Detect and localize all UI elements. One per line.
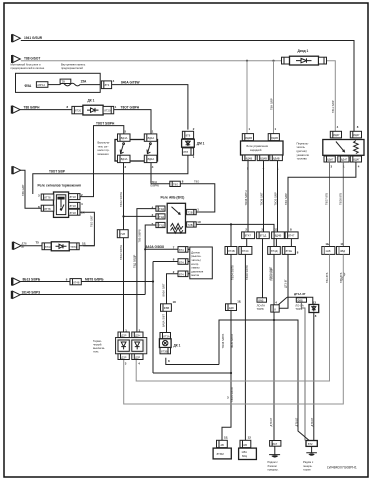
svg-text:8Б13 S/8РБ: 8Б13 S/8РБ	[23, 277, 41, 281]
svg-text:Т8О3 S/8Р: Т8О3 S/8Р	[269, 267, 273, 281]
svg-text:Т8О4 S/8Т8: Т8О4 S/8Т8	[230, 334, 234, 349]
svg-text:Ф5А: Ф5А	[25, 84, 32, 88]
svg-text:Диод 1: Диод 1	[298, 49, 309, 53]
svg-text:8Т4: 8Т4	[179, 260, 184, 264]
svg-text:8Д4Г: 8Д4Г	[327, 158, 334, 162]
svg-text:8Т3: 8Т3	[105, 83, 110, 87]
svg-text:1Н8: 1Н8	[325, 249, 330, 253]
svg-text:8Т4Д: 8Т4Д	[271, 249, 278, 253]
wire stop switch right-bottom down then right to relay K2	[151, 163, 170, 184]
svg-text:давления: давления	[191, 270, 203, 273]
wire fuel sender pin4 jog left and down to row1-B4	[288, 162, 356, 232]
svg-text:Т2В: Т2В	[188, 223, 193, 227]
svg-text:можения: можения	[98, 153, 110, 156]
svg-text:8ТЗМ: 8ТЗМ	[217, 452, 225, 456]
svg-text:Т8О2 S/8ТН: Т8О2 S/8ТН	[119, 192, 123, 207]
row2 connector B2	[239, 247, 252, 255]
row2 connector B1	[225, 247, 237, 255]
svg-text:8АТ: 8АТ	[272, 442, 277, 446]
oil pressure switch box	[190, 247, 213, 279]
STC element left	[118, 340, 129, 351]
row1-row2 stubs	[247, 239, 292, 298]
svg-text:1Б: 1Б	[325, 242, 329, 246]
svg-text:8Т4: 8Т4	[179, 273, 184, 277]
wire inside fuse block	[48, 84, 60, 86]
svg-text:Блок управления: Блок управления	[247, 144, 269, 148]
connector -H8 (gray chain)	[322, 247, 335, 255]
bottom connector .4B	[217, 440, 228, 447]
svg-text:12: 12	[248, 436, 252, 440]
svg-text:Т8О8 S/8ГБ: Т8О8 S/8ГБ	[221, 334, 225, 349]
svg-text:8Т8: 8Т8	[183, 150, 188, 154]
svg-text:8Т4: 8Т4	[179, 248, 184, 252]
svg-text:ДК 1: ДК 1	[174, 343, 181, 347]
fuel sender bottom connector 1	[324, 156, 335, 162]
stop switch bottom connector left 8D4A	[118, 155, 131, 162]
wire relay K1 row1 up-over to stop switch	[80, 126, 124, 197]
svg-text:Датчик: Датчик	[191, 250, 200, 254]
switch symbol right	[150, 143, 152, 145]
svg-text:Т8Б G/8Т: Т8Б G/8Т	[21, 184, 25, 196]
svg-text:Т2Д: Т2Д	[159, 207, 164, 211]
svg-text:лампы: лампы	[191, 267, 199, 270]
fuel sender top connector left	[330, 131, 341, 138]
relay K1 right connector row2	[69, 202, 80, 208]
fuse block box	[16, 73, 101, 92]
wire diode down to T82 ground box	[313, 313, 315, 441]
connector T8O on that wire	[170, 181, 181, 186]
svg-text:18140 S/8РЗ: 18140 S/8РЗ	[22, 290, 41, 294]
svg-text:18: 18	[173, 300, 177, 304]
wire T8OT G/8RN to stop switch	[114, 110, 151, 134]
svg-text:Терми-: Терми-	[93, 339, 102, 343]
fuel sender bottom connector 3	[350, 156, 361, 162]
gray wire W3: +8D down, left to STC left leg	[124, 254, 344, 404]
svg-text:Переклю-: Переклю-	[297, 141, 309, 145]
fuel sender body	[323, 140, 364, 156]
optional stub text (without A/C)	[257, 298, 267, 302]
control unit wire 2 down	[263, 161, 265, 232]
svg-text:.4В: .4В	[220, 443, 224, 447]
connector arrow IN7	[13, 242, 21, 250]
svg-text:Т88 G/8РН: Т88 G/8РН	[24, 105, 41, 109]
svg-text:1Д8: 1Д8	[229, 306, 234, 310]
svg-text:Т8О S/8Р: Т8О S/8Р	[284, 193, 288, 205]
svg-text:8Т47: 8Т47	[288, 234, 295, 238]
svg-text:Т8ОТ S/8РН: Т8ОТ S/8РН	[96, 121, 115, 125]
svg-text:А8Г12: А8Г12	[37, 83, 45, 87]
connector arrow IN4	[12, 166, 20, 174]
svg-text:М8Т8 G/8РБ: М8Т8 G/8РБ	[85, 277, 104, 281]
switch symbol left	[123, 143, 125, 145]
diode 1: body	[290, 56, 319, 65]
svg-text:Монтажный блок реле и: Монтажный блок реле и	[11, 63, 42, 67]
svg-text:контр.: контр.	[191, 263, 199, 266]
diode box on x=313	[309, 305, 319, 313]
svg-text:8А0А S/8Т: 8А0А S/8Т	[162, 283, 166, 296]
svg-text:8Т4В: 8Т4В	[228, 249, 235, 253]
fuel sender top connector right	[350, 131, 361, 138]
svg-text:Д2Н: Д2Н	[135, 333, 140, 337]
svg-text:указателя: указателя	[297, 154, 310, 157]
svg-text:Т8О2 S/8ТН: Т8О2 S/8ТН	[119, 245, 123, 260]
svg-text:8Т20: 8Т20	[104, 108, 111, 112]
relay K2 left connector row3	[156, 222, 165, 227]
svg-text:8Д4В: 8Д4В	[246, 156, 253, 160]
svg-text:Т2В: Т2В	[188, 210, 193, 214]
STC top connector right	[132, 332, 143, 338]
svg-text:8Т3В: 8Т3В	[161, 349, 168, 353]
svg-text:тель сиг-: тель сиг-	[98, 145, 109, 148]
connector F28 on the wire	[117, 230, 128, 238]
svg-text:82Ц: 82Ц	[242, 454, 247, 458]
svg-text:8Т4С: 8Т4С	[242, 249, 249, 253]
svg-text:нала тор-: нала тор-	[98, 149, 110, 152]
svg-text:8Д4А: 8Д4А	[148, 136, 155, 140]
fuse box F8B near diode	[296, 298, 306, 302]
svg-text:8Т4Е: 8Т4Е	[286, 249, 293, 253]
wire from IN4 down to relay K1 coil	[20, 170, 41, 208]
svg-text:генера-: генера-	[303, 465, 312, 468]
svg-text:Т8О8 8ГБ: Т8О8 8ГБ	[339, 193, 343, 205]
row1 connector B1	[242, 232, 255, 239]
svg-text:8Т20: 8Т20	[75, 108, 82, 112]
relay K1 left connector row2	[41, 205, 54, 211]
wire 840A G/L8W from fuse to diode chain	[112, 85, 188, 130]
svg-text:8А0А S/8Т: 8А0А S/8Т	[162, 314, 166, 327]
svg-text:8Т1Д: 8Т1Д	[260, 234, 267, 238]
svg-text:8Т18: 8Т18	[70, 195, 77, 199]
relay K2 switch symbol	[172, 207, 181, 215]
svg-text:Т8О4 S/8Т8: Т8О4 S/8Т8	[230, 387, 234, 402]
wire to DT8 component	[20, 245, 42, 247]
svg-text:ДТ8 8Г: ДТ8 8Г	[310, 417, 314, 426]
svg-text:1941 G/SUR: 1941 G/SUR	[24, 36, 43, 40]
wire 18140 S/8R3	[20, 294, 145, 296]
row1 connector B3	[272, 232, 285, 239]
fuel sender resistor zigzag	[354, 141, 359, 154]
svg-text:Т8О3 S/8Р: Т8О3 S/8Р	[274, 192, 278, 206]
svg-text:Т8О: Т8О	[194, 179, 199, 183]
svg-text:Ф8В: Ф8В	[164, 306, 170, 310]
relay K2 body	[167, 203, 185, 233]
dark bus y=321.5 from riser x=219 to drop x=298	[219, 320, 310, 441]
svg-text:LW484D07G08РН1: LW484D07G08РН1	[327, 466, 357, 470]
dark link B from x=153 bus	[153, 372, 231, 374]
wire relay K2 pin4 left-down to oil sensor connector row A	[137, 209, 156, 333]
connector arrow IN1	[12, 34, 20, 42]
junction on K2 bus at x=231	[230, 223, 232, 225]
svg-text:Т8Н S/8Р: Т8Н S/8Р	[270, 98, 274, 110]
svg-text:ДТ1А 8Г: ДТ1А 8Г	[294, 292, 306, 296]
svg-text:Г2Д: Г2Д	[159, 223, 164, 227]
connector J4-A	[178, 247, 188, 253]
svg-text:Т811 S/8Р: Т811 S/8Р	[331, 100, 335, 113]
svg-text:8Т18: 8Т18	[70, 204, 77, 208]
wire relay K2 right row2 to long ground drop	[196, 224, 274, 440]
svg-text:13: 13	[313, 300, 317, 304]
svg-text:G/8РW: G/8РW	[150, 183, 159, 187]
svg-text:8Д4В: 8Д4В	[273, 156, 280, 160]
svg-text:8АБ: 8АБ	[258, 298, 263, 302]
STC bottom connector right	[132, 354, 143, 360]
svg-text:ТОР8: ТОР8	[257, 307, 264, 311]
svg-text:Т8А 8ГБ: Т8А 8ГБ	[325, 272, 329, 283]
wire fuel sender pin1 down to +8D	[342, 162, 344, 247]
svg-text:Ф8Б: Ф8Б	[298, 298, 304, 302]
svg-text:8Т78: 8Т78	[44, 207, 51, 211]
stop lamp switch body	[115, 140, 158, 162]
svg-text:Г28: Г28	[121, 232, 126, 236]
relay K1 contact	[61, 200, 64, 211]
stop switch bottom connector right 8D4A	[144, 155, 157, 162]
control unit top connector left 8D4A	[242, 134, 253, 141]
svg-text:8Д4В: 8Д4В	[271, 136, 278, 140]
svg-text:ДТ3 8Г: ДТ3 8Г	[284, 279, 288, 288]
diode assembly D1: bottom connector	[182, 148, 193, 155]
stop switch top connector left 8D4A	[118, 134, 131, 141]
svg-text:Д2Р: Д2Р	[121, 355, 126, 359]
STC element right	[132, 340, 143, 351]
svg-text:8Д4А: 8Д4А	[121, 157, 128, 161]
svg-text:Выключа-: Выключа-	[98, 141, 110, 145]
fusible link DK1: body	[83, 105, 103, 115]
svg-text:1Х: 1Х	[197, 220, 201, 224]
wire row2-B1 down	[230, 254, 232, 303]
svg-text:8Д4Г: 8Д4Г	[333, 133, 340, 137]
relay K1 left connector row1	[41, 194, 54, 200]
DK lamp: top connector	[160, 333, 171, 339]
svg-text:8Т18: 8Т18	[70, 211, 77, 215]
wire relay K2 pin2 to stop-switch wire junction	[124, 215, 156, 217]
svg-text:Т8О7 8ГБ: Т8О7 8ГБ	[325, 193, 329, 205]
svg-text:1Б: 1Б	[82, 241, 86, 245]
svg-text:Т8О2: Т8О2	[150, 180, 157, 184]
row1 connector B2	[257, 232, 270, 239]
svg-text:выключа-: выключа-	[93, 347, 105, 350]
svg-text:8Т34: 8Т34	[45, 245, 52, 249]
control unit body	[241, 141, 284, 155]
connector J4-B	[178, 259, 188, 265]
svg-text:ЛО-ЛА: ЛО-ЛА	[257, 303, 266, 307]
connector 8T4 on 8B13 wire	[70, 279, 81, 285]
wire DT1A 8G to diode box	[287, 297, 313, 304]
svg-text:предохранителей в салоне: предохранителей в салоне	[11, 66, 45, 70]
wire T88 G/SOT (gray feed wire through diode 1)	[21, 60, 336, 134]
wire F8B down to T82 ground (diagonal at bottom)	[301, 302, 305, 440]
svg-text:масла: масла	[191, 274, 199, 277]
control unit top connector right 8D4A	[268, 134, 279, 141]
svg-text:топлива: топлива	[297, 158, 308, 161]
bottom connector 8A	[270, 441, 281, 447]
svg-text:Т8О8 S/8Т: Т8О8 S/8Т	[260, 192, 264, 206]
svg-text:Д2Р: Д2Р	[121, 333, 126, 337]
connector +8B on x=166	[161, 304, 172, 312]
relay K1 inner body	[56, 195, 65, 215]
STC body	[116, 338, 147, 354]
ground symbol G2 (chassis)	[306, 446, 317, 452]
connector arrow IN6	[12, 291, 20, 299]
svg-text:Рядом с: Рядом с	[268, 460, 279, 464]
wire relay K1 row3 down to DT8 component	[80, 212, 94, 246]
svg-text:В1В: В1В	[242, 443, 247, 447]
svg-text:ДК 1: ДК 1	[88, 99, 95, 103]
wire 8B13 S/8RB	[20, 281, 153, 283]
svg-text:Т8ОТ G/8РН: Т8ОТ G/8РН	[121, 105, 140, 109]
svg-text:Рядом с: Рядом с	[303, 460, 314, 464]
relay K2 right connector row1	[187, 209, 197, 214]
DT8 component: right connector	[69, 243, 79, 250]
connector -D8 on x=231	[226, 304, 237, 311]
row2 connector B4	[282, 247, 295, 255]
connector arrow IN5	[12, 278, 20, 286]
svg-text:8Т47: 8Т47	[245, 234, 252, 238]
svg-text:предохр.: предохр.	[268, 468, 279, 471]
svg-text:Т8Б S/8Р8: Т8Б S/8Р8	[138, 229, 142, 242]
connector A8F12 inside fuse block	[36, 82, 48, 88]
connector +8D (gray chain)	[337, 247, 350, 255]
svg-text:8Т78: 8Т78	[44, 196, 51, 200]
DT8 component: left connector	[42, 243, 51, 250]
STC bottom connector left	[118, 354, 129, 360]
connector on x=274 wire	[271, 305, 279, 312]
stop switch top connector right 8D4A	[144, 134, 157, 141]
wire row2-B4 down to oil temp switch symbol	[279, 254, 288, 308]
relay K2 resistor zigzag	[171, 224, 183, 234]
svg-text:Т8О8 S/8ТН: Т8О8 S/8ТН	[244, 190, 248, 205]
ground symbol G1	[269, 446, 280, 454]
svg-text:Реле АКБ (8И1): Реле АКБ (8И1)	[161, 196, 185, 200]
svg-text:Т8Д S/8ДР: Т8Д S/8ДР	[133, 254, 137, 268]
svg-text:Внутренняя панель: Внутренняя панель	[61, 63, 86, 67]
control unit wire 3 down	[277, 161, 279, 232]
dark link A from DK lamp bottom	[166, 358, 219, 365]
fuel sender bottom connector 2	[338, 156, 349, 162]
relay K1 outer body	[54, 192, 69, 217]
svg-text:840А G/Г8W: 840А G/Г8W	[121, 80, 139, 84]
control unit bottom connector 3	[270, 155, 283, 161]
wire K2 row2 bus into row2-B1	[230, 224, 232, 246]
fuse F5 15A symbol	[60, 79, 71, 83]
wire stop switch left-bottom down through F28 to STC block	[123, 163, 125, 333]
relay K2 left connector row1	[156, 206, 165, 211]
diode assembly D1 on feed wire: top connector	[182, 131, 193, 138]
wire fuel sender pin3 down to -H8	[329, 162, 331, 247]
connector J4-C	[178, 271, 188, 277]
svg-text:ЛО-ЛА: ЛО-ЛА	[295, 303, 304, 307]
wire row2-B2 down	[244, 254, 246, 440]
svg-text:T88 G/SOT: T88 G/SOT	[24, 57, 40, 61]
svg-text:Т5: Т5	[36, 241, 40, 245]
svg-text:8Т3А: 8Т3А	[163, 334, 170, 338]
connector arrow IN2	[12, 55, 20, 63]
relay K1 coil bar	[57, 197, 64, 200]
diode 1: left connector	[282, 57, 290, 64]
bottom connector T82	[306, 441, 317, 447]
svg-text:блоком: блоком	[268, 464, 277, 468]
connector arrow IN3	[12, 106, 20, 114]
stub links J4 to box	[188, 249, 190, 273]
svg-text:8Т8: 8Т8	[186, 133, 191, 137]
svg-text:11: 11	[340, 242, 343, 246]
svg-text:8Д4В: 8Д4В	[260, 156, 267, 160]
svg-text:Т8О S/8Т: Т8О S/8Т	[90, 215, 94, 227]
svg-text:предохранителей: предохранителей	[61, 66, 83, 70]
svg-text:8Д4В: 8Д4В	[245, 136, 252, 140]
DT8 component: body with diode	[51, 242, 69, 251]
bottom connector D1B	[240, 440, 251, 447]
DK lamp: bottom connector	[160, 348, 171, 354]
svg-text:15А: 15А	[81, 80, 88, 84]
fusible link DK1: left connector	[72, 106, 83, 113]
diode assembly D1: body with diode	[182, 139, 195, 147]
svg-text:8Д4Г: 8Д4Г	[353, 133, 360, 137]
wire -D8 down, jog left, to connector .4B	[222, 311, 231, 441]
svg-text:8Д4А: 8Д4А	[148, 157, 155, 161]
ground block 8T3M	[213, 448, 231, 459]
svg-text:ДМ 1: ДМ 1	[197, 141, 205, 145]
relay K1 right connector row3	[69, 209, 80, 215]
loop symbol on +8D wire	[342, 273, 345, 281]
wire from diode D1 down then left: long feed wire y=174	[33, 155, 188, 194]
relay K1 right connector row1	[69, 194, 80, 200]
svg-text:1Б: 1Б	[237, 300, 241, 304]
svg-text:чатель: чатель	[297, 146, 306, 149]
svg-text:Т8Т3: Т8Т3	[70, 245, 77, 249]
svg-text:тель: тель	[93, 351, 99, 354]
DK lamp: body	[159, 339, 171, 348]
fusible link DK1: right connector	[103, 106, 114, 113]
svg-text:8А0А G/8О8: 8А0А G/8О8	[146, 245, 165, 249]
svg-text:Реле сигналов торможения: Реле сигналов торможения	[38, 183, 81, 187]
control unit bottom connector 2	[257, 155, 268, 161]
svg-text:(выклю-: (выклю-	[191, 254, 201, 258]
wire J4-C left and down to +8B box and DK lamp	[167, 274, 179, 333]
svg-text:8Т2: 8Т2	[308, 442, 313, 446]
junction and riser to J4-B, drop to bottom bus	[152, 280, 154, 282]
row1 connector B4	[285, 232, 298, 239]
wire 1941 G/SUR: horizontal top wire to right side, down at x=354	[21, 41, 354, 132]
svg-text:8Д4Г: 8Д4Г	[353, 158, 360, 162]
svg-text:1Б: 1Б	[224, 436, 228, 440]
connector 8T3 on fuse output	[101, 81, 111, 89]
svg-text:8Д4В: 8Д4В	[275, 234, 282, 238]
row2 connector B3	[268, 247, 281, 255]
svg-text:(датчик): (датчик)	[297, 149, 307, 153]
svg-text:зарядкой: зарядкой	[250, 148, 262, 152]
svg-text:12: 12	[274, 227, 278, 231]
control unit wire 1 down	[247, 161, 249, 232]
svg-text:4ВД: 4ВД	[340, 249, 345, 253]
svg-text:тором: тором	[303, 468, 311, 471]
relay K2 right connector row2	[187, 222, 197, 227]
svg-text:ДТ8: ДТ8	[22, 242, 27, 246]
svg-text:8Д4Г: 8Д4Г	[341, 158, 348, 162]
svg-text:1/8А: 1/8А	[241, 450, 247, 454]
svg-text:8Т48: 8Т48	[73, 280, 80, 284]
svg-text:ДТ8 8Г: ДТ8 8Г	[269, 417, 273, 426]
diode 1: right connector	[319, 57, 327, 64]
svg-text:чатель): чатель)	[191, 258, 200, 262]
control unit bottom connector 1	[242, 155, 255, 161]
svg-text:Д2Р: Д2Р	[135, 355, 140, 359]
relay K2 left connector row2	[156, 214, 165, 219]
switch symbol on x=288	[279, 297, 288, 304]
block 1/8A 82C	[239, 448, 257, 459]
svg-text:8Д4А: 8Д4А	[121, 136, 128, 140]
svg-text:ческий: ческий	[93, 342, 102, 346]
svg-text:Т8ОТ S/8Р: Т8ОТ S/8Р	[49, 170, 66, 174]
